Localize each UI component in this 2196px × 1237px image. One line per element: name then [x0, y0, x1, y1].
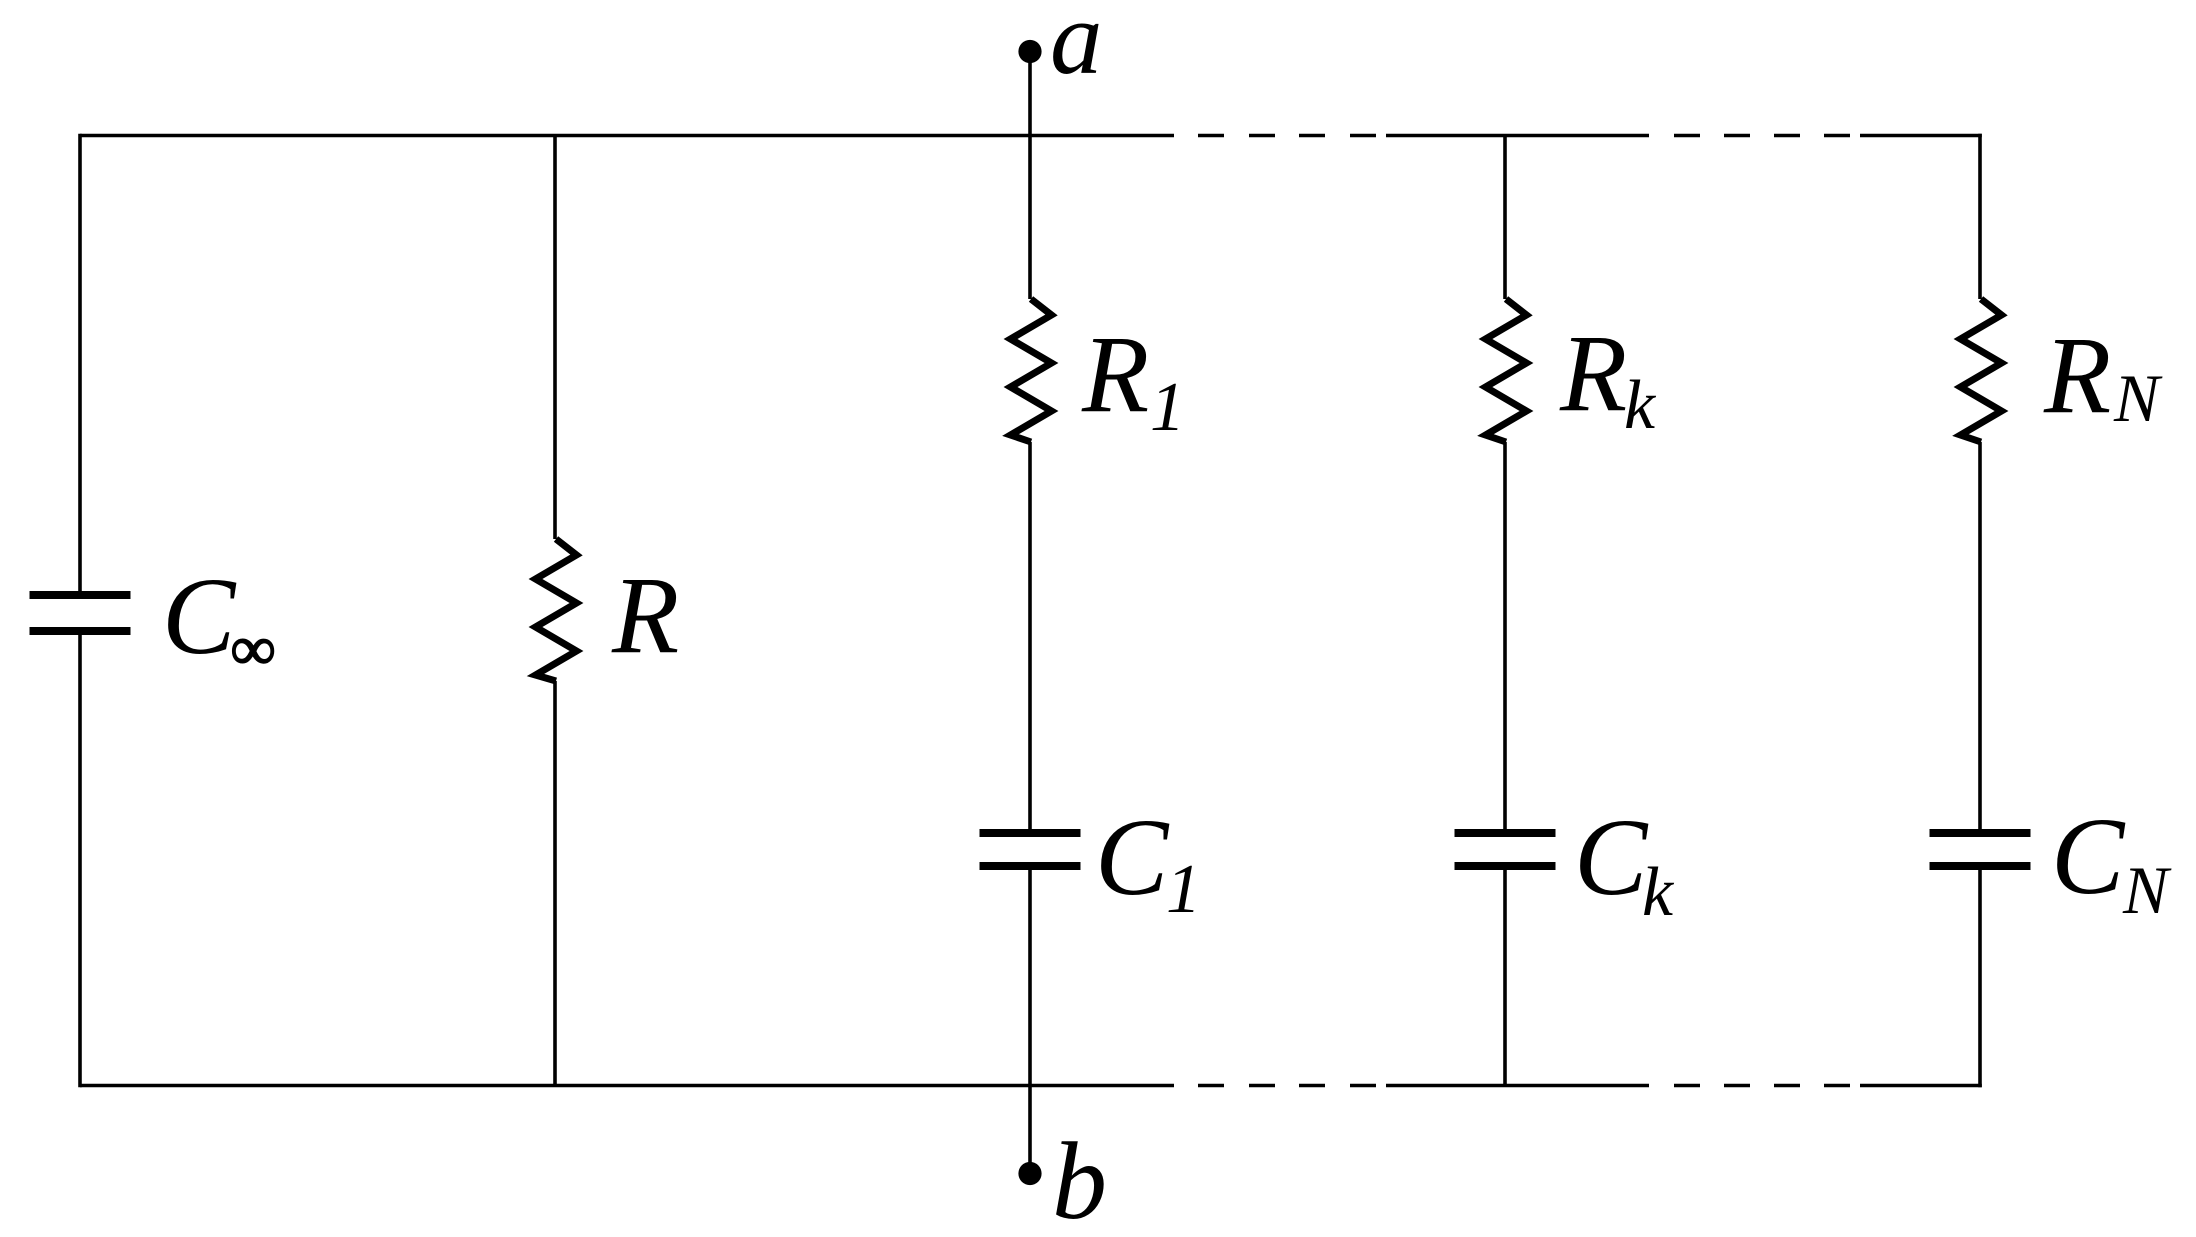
svg-text:N: N — [2122, 852, 2172, 928]
svg-text:C: C — [2051, 795, 2126, 917]
svg-text:k: k — [1642, 854, 1675, 931]
svg-text:C: C — [162, 555, 237, 677]
svg-text:R: R — [1559, 312, 1627, 434]
svg-text:1: 1 — [1150, 369, 1185, 446]
svg-text:a: a — [1050, 0, 1103, 96]
svg-text:N: N — [2113, 360, 2163, 436]
svg-text:R: R — [1081, 313, 1149, 435]
svg-text:∞: ∞ — [231, 615, 275, 683]
svg-text:b: b — [1052, 1120, 1107, 1237]
svg-text:C: C — [1574, 796, 1649, 918]
svg-text:1: 1 — [1166, 851, 1201, 928]
svg-text:R: R — [2043, 314, 2111, 436]
svg-text:R: R — [611, 554, 679, 676]
svg-text:k: k — [1624, 367, 1657, 444]
svg-text:C: C — [1095, 796, 1170, 918]
